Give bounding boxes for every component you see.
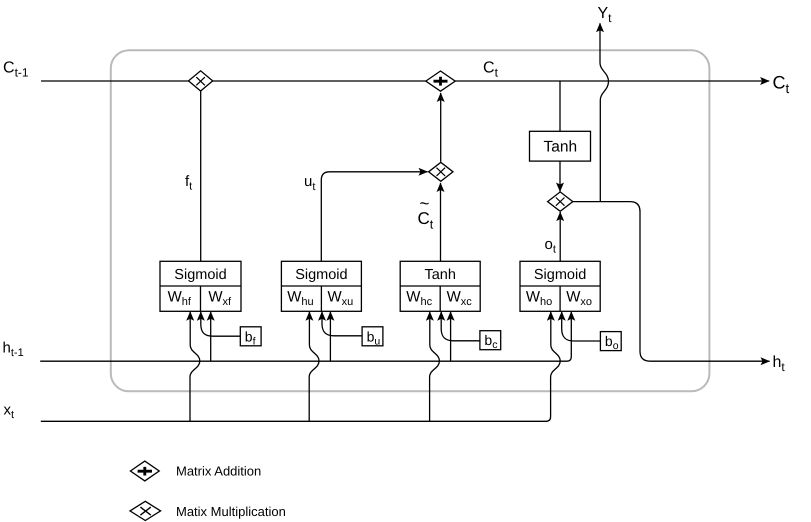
bias box b_c [480,331,501,350]
wire b_o to Sigmoid4 middle arrow [562,312,601,341]
wire b_u to Sigmoid2 middle arrow [322,312,362,336]
bias box b_u [362,327,383,346]
svg-text:Sigmoid: Sigmoid [534,267,586,283]
wire Y_t branch up with hop over C trunk [600,23,609,201]
wire x_t riser to Sigmoid1 left arrow with hop over h line [190,312,200,422]
wire h_t output: multiply node right, down and right to h_t [573,202,770,362]
svg-text:xt: xt [4,401,15,421]
svg-text:ut: ut [304,173,315,193]
multiply node (update x candidate) [429,162,453,181]
wire h_t-1 riser to Tanh3 right arrow [450,312,452,362]
wire h_t-1 riser to Sigmoid1 right arrow [210,312,212,362]
svg-text:Tanh: Tanh [543,138,577,155]
addition node on C trunk [426,71,455,91]
LSTM cell container (rounded rectangle) [111,50,710,391]
wire x_t trunk turning up, hop over h line, into Sigmoid W_xo area (left input arrow) [41,312,560,422]
svg-text:ot: ot [545,236,556,256]
wire h_t-1 riser to Sigmoid2 right arrow [329,312,331,362]
forget gate box Sigmoid / W_hf W_xf [160,261,241,311]
candidate box Tanh / W_hc W_xc [400,261,480,311]
bias box b_f [240,327,261,346]
legend addition node symbol [130,461,159,481]
wire f_t: multiply node down to Sigmoid1 top [200,91,202,261]
wire Tanh box down into multiply node top [559,161,561,192]
svg-text:Matix Multiplication: Matix Multiplication [176,504,286,519]
legend multiplication node symbol [130,501,161,520]
svg-text:Ct: Ct [418,209,434,231]
wire x_t riser to Sigmoid2 left arrow with hop over h line [309,312,319,422]
wire o_t: Sigmoid4 top up into multiply node bottom [559,212,561,261]
wire multiply node up into addition node [440,93,442,162]
svg-text:ht-1: ht-1 [3,339,24,359]
svg-text:Sigmoid: Sigmoid [174,267,226,283]
svg-text:Matrix Addition: Matrix Addition [176,463,261,478]
output gate box Sigmoid / W_ho W_xo [520,261,600,311]
svg-text:ft: ft [185,173,192,193]
wire C trunk down into Tanh box [559,81,561,132]
wire u_t: Sigmoid2 top up and right into multiply node [321,172,427,261]
multiply node (forget gate on C trunk) [189,71,213,91]
wire C_t-1 to C_t (cell state trunk) [41,80,769,82]
svg-text:Yt: Yt [598,5,613,25]
svg-text:Ct: Ct [773,73,790,97]
svg-text:Tanh: Tanh [424,267,455,283]
bias box b_o [600,332,621,351]
svg-text:Sigmoid: Sigmoid [295,267,347,283]
svg-text:Ct-1: Ct-1 [3,60,29,80]
svg-text:Ct: Ct [483,60,499,80]
update gate box Sigmoid / W_hu W_xu [281,261,361,311]
wire h_t-1 trunk turning up into Sigmoid W_ho (right input arrow) [40,312,571,362]
svg-text:ht: ht [773,354,786,374]
wire b_f to Sigmoid1 middle arrow [201,312,241,337]
wire b_c to Tanh3 middle arrow [441,312,480,341]
wire candidate C~_t: Tanh3 top up into multiply node bottom [440,183,442,261]
Tanh activation box (cell state to h) [530,131,591,161]
wire x_t riser to Tanh3 left arrow with hop over h line [430,312,440,422]
multiply node (output gate) [548,192,573,211]
